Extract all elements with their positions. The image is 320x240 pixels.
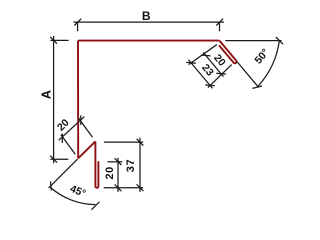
dim 37 bottom tick: [137, 184, 144, 191]
dimension A top extension line: [50, 39, 68, 41]
svg-text:A: A: [40, 90, 54, 99]
hem dim 23 line: [188, 60, 212, 89]
dimension B left tick: [74, 19, 81, 26]
dim 20 vertical top extension line: [108, 161, 123, 163]
45 degree angle: kick extension ray: [49, 159, 78, 188]
hem dim 20 right tick: [216, 69, 226, 79]
svg-text:37: 37: [125, 159, 137, 172]
dimension B right extension line: [219, 23, 221, 31]
profile left edge: [77, 41, 79, 159]
dimension A line: [53, 36, 55, 163]
dim 37 top tick: [137, 139, 144, 146]
45 degree arc right tick: [91, 202, 99, 210]
svg-text:20: 20: [211, 53, 227, 69]
dimension A bottom tick: [50, 156, 57, 163]
dim 20 vertical top tick: [115, 158, 122, 165]
dim 37 line: [139, 138, 141, 192]
dim 20 vertical bottom tick: [115, 184, 122, 191]
hem dimension block (rotated 50deg at top-right corner): [186, 40, 237, 91]
45 degree arc left tick: [50, 181, 53, 190]
profile top edge: [78, 40, 219, 42]
hem ext line from fold tip: [206, 65, 233, 88]
hem dim 23 left tick: [186, 58, 196, 68]
dim 37 top extension line: [104, 141, 143, 143]
hem dim 23 right tick: [205, 81, 215, 91]
50 degree angle: horizontal reference ray: [225, 40, 281, 42]
diagonal dim 20 line (bottom-left): [59, 117, 85, 141]
50 degree arc bottom tick: [252, 86, 262, 88]
svg-text:45°: 45°: [68, 184, 87, 200]
50 degree angle arc: [258, 41, 280, 87]
45 degree angle arc: [50, 187, 95, 204]
svg-text:B: B: [142, 9, 151, 23]
dimension A top tick: [50, 37, 57, 44]
diagonal dim 20 extension line from kick top: [78, 118, 92, 138]
profile bottom hem (folded edge, double line): [95, 141, 98, 187]
diagonal dim 20 extension line from bottom vertex: [61, 135, 75, 155]
dimension B left extension line: [77, 23, 79, 31]
dim 37 / 20 bottom extension line: [104, 187, 144, 189]
hem ext line from corner: [189, 42, 217, 66]
hem dim 20 left tick: [201, 51, 211, 61]
dimension B right tick: [216, 19, 223, 26]
hem dim 20 line: [203, 52, 223, 76]
svg-text:50°: 50°: [253, 47, 272, 66]
dim 20 vertical line (bottom): [117, 158, 119, 192]
dimension A bottom extension line: [50, 158, 68, 160]
profile right hem (folded edge, double line): [219, 41, 237, 64]
diagonal dim 20 lower tick: [61, 134, 63, 143]
diagonal dim 20 upper tick: [80, 115, 82, 125]
svg-text:20: 20: [104, 166, 116, 179]
profile bottom diagonal kick: [78, 141, 95, 158]
50 degree arc top tick: [276, 37, 283, 44]
50 degree angle: hem extension ray: [237, 61, 259, 87]
dimension B line: [74, 21, 225, 23]
